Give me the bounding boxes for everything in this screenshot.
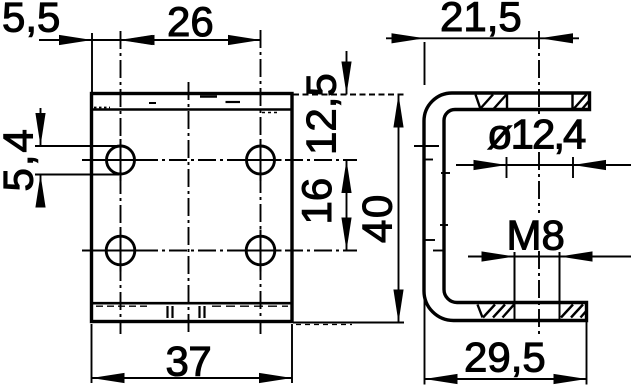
- centerline column 2: [260, 30, 262, 334]
- dim 12,5 40 top extension line: [293, 94, 404, 96]
- dim 5,5 line: [39, 39, 151, 41]
- dim 21,5 line: [386, 37, 579, 39]
- dim o12,4 line: [456, 164, 631, 166]
- right view bottom flange hatch left block: [478, 305, 483, 318]
- hole centerline cross: [240, 250, 282, 252]
- hole centerline cross: [100, 250, 142, 252]
- right view top flange hole left edge: [506, 93, 508, 110]
- hole top-left: [107, 146, 135, 174]
- right view C-channel outline: [424, 93, 590, 321]
- right view hole centerline: [538, 31, 540, 117]
- right view wall section marks row1: [414, 145, 439, 147]
- dim 40 arrow up: [393, 95, 403, 128]
- dim 21,5 arrow left: [392, 33, 425, 43]
- right view top flange hatch left block: [476, 95, 481, 110]
- dim 29,5 arrow left: [425, 374, 458, 384]
- centerline plate middle: [188, 82, 190, 334]
- dim 29,5 extension right: [586, 322, 588, 385]
- dim 29,5 extension left: [424, 291, 426, 385]
- centerline hole row 1: [82, 159, 357, 161]
- bottom band hatch marks: [166, 306, 168, 318]
- svg-text:ø12,4: ø12,4: [487, 111, 586, 158]
- dim 29,5 arrow right: [554, 374, 587, 384]
- dim 5,4 tangent extension bottom: [35, 174, 119, 176]
- hole centerline cross: [100, 159, 142, 161]
- dim 5,5 arrow right: [122, 35, 155, 45]
- dim 12,5 arrow down: [341, 62, 351, 95]
- svg-text:5,5: 5,5: [2, 0, 60, 41]
- right view top flange hole right edge: [571, 93, 573, 110]
- dim 16 arrow up: [341, 160, 351, 193]
- front view bottom band line: [92, 302, 291, 305]
- dim 12,5 line: [346, 51, 348, 95]
- dim o12,4 arrow left: [474, 160, 507, 170]
- dim 29,5 line: [425, 378, 587, 380]
- svg-text:40: 40: [354, 193, 401, 243]
- dim M8 arrow right: [560, 251, 593, 261]
- svg-text:21,5: 21,5: [440, 0, 522, 40]
- svg-text:12,5: 12,5: [298, 73, 345, 155]
- dim 21,5 arrow right: [540, 33, 573, 43]
- dim 5,4 line upper: [40, 108, 42, 146]
- hole top-right: [247, 146, 275, 174]
- dim M8 arrow left: [482, 251, 515, 261]
- right view top flange hatch right block: [574, 95, 587, 109]
- dim 40 arrow down: [393, 290, 403, 323]
- dim 21,5 extension left: [424, 42, 426, 85]
- dim 16 line: [346, 160, 348, 251]
- dim 26 arrow left: [120, 35, 153, 45]
- dim o12,4 tick left: [506, 157, 508, 178]
- front view plate outline: [92, 94, 293, 322]
- dim 26 line: [120, 39, 262, 41]
- dim 16 arrow down: [341, 218, 351, 251]
- dim 37 line: [92, 377, 293, 379]
- svg-text:16: 16: [293, 178, 340, 225]
- dim o12,4 tick right: [572, 157, 574, 178]
- dim 5,4 line lower: [40, 175, 42, 207]
- top band hatch marks: [200, 95, 217, 98]
- dim 5,4 tangent extension top: [35, 145, 119, 147]
- dim 5,4 arrow up: [35, 175, 45, 208]
- dim 37 extension right: [291, 324, 293, 383]
- svg-text:M8: M8: [507, 212, 565, 259]
- hole bottom-left: [106, 236, 135, 265]
- dim 37 arrow left: [92, 373, 125, 383]
- dim 37 extension left: [91, 324, 93, 383]
- dim 26 arrow right: [228, 35, 261, 45]
- dim 40 bottom extension line: [293, 322, 404, 324]
- dim 5,4 arrow down: [35, 113, 45, 146]
- dim 40 line: [398, 95, 400, 323]
- dim 37 arrow right: [259, 373, 292, 383]
- right view wall section marks row2: [440, 224, 448, 226]
- dim M8 line: [468, 256, 631, 258]
- dim M8 extension right: [559, 252, 561, 320]
- centerline hole row 2: [82, 250, 357, 252]
- svg-text:29,5: 29,5: [464, 334, 546, 381]
- dim 5,5 extension line plate left edge: [91, 33, 93, 93]
- svg-text:37: 37: [166, 338, 212, 385]
- hole centerline cross: [240, 159, 282, 161]
- dim o12,4 arrow right: [573, 160, 606, 170]
- dim 5,5 arrow left: [59, 35, 92, 45]
- dim M8 extension left: [514, 252, 516, 320]
- centerline column 1: [120, 31, 122, 334]
- right view bottom flange hatch right block: [561, 305, 573, 318]
- hole bottom-right: [246, 236, 275, 265]
- svg-text:5,4: 5,4: [0, 127, 42, 191]
- front view top band line: [92, 108, 291, 111]
- svg-text:26: 26: [167, 0, 214, 45]
